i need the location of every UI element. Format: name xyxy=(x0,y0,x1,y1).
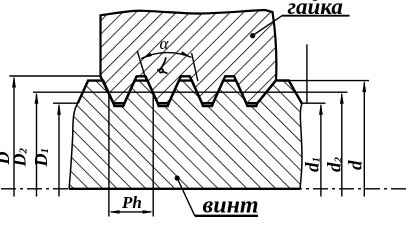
svg-text:d: d xyxy=(345,160,366,170)
screw hatched body xyxy=(69,81,302,189)
leader and label for screw xyxy=(175,176,180,181)
leader and label for nut xyxy=(250,33,255,38)
dimension D1 xyxy=(58,105,60,197)
screw left break line (wavy) xyxy=(69,103,78,189)
svg-text:винт: винт xyxy=(203,193,259,219)
screw bottom edge (thick) xyxy=(69,188,300,190)
angle alpha arc with arrows xyxy=(141,53,191,59)
nut thread profile (thick) xyxy=(101,76,276,103)
nut outline: left edge, wavy top, wavy right edge xyxy=(101,10,277,80)
screw right break line (wavy) xyxy=(300,104,302,189)
Ph double arrow xyxy=(111,211,151,213)
vertical boundary line right of nut xyxy=(306,44,308,103)
svg-text:D2: D2 xyxy=(10,148,30,168)
svg-text:d2: d2 xyxy=(324,157,345,173)
dimension d1 xyxy=(320,105,322,197)
svg-text:d1: d1 xyxy=(303,157,324,172)
small hook glyph xyxy=(158,58,167,73)
D extension line xyxy=(9,75,100,77)
svg-text:Ph: Ph xyxy=(121,193,142,212)
d1 extension line (right) xyxy=(302,102,326,104)
axis dash-dot line xyxy=(1,188,407,190)
svg-text:α: α xyxy=(160,34,170,53)
Ph extension lines xyxy=(108,94,110,217)
pitch line D2/d2 extension xyxy=(33,91,348,93)
dimension d2 xyxy=(341,94,343,197)
dimension D xyxy=(13,78,15,197)
dimension d xyxy=(363,83,365,197)
d extension line (right, continues crest) xyxy=(289,80,369,82)
flank extension lines for alpha xyxy=(137,51,146,82)
nut hatched body xyxy=(101,10,277,103)
screw thread profile (thick): crests, flanks, root trays xyxy=(78,81,302,107)
dimension D2 xyxy=(36,94,38,197)
D1 extension line (left) xyxy=(53,102,78,104)
svg-text:гайка: гайка xyxy=(288,0,343,19)
svg-text:D1: D1 xyxy=(31,148,51,168)
